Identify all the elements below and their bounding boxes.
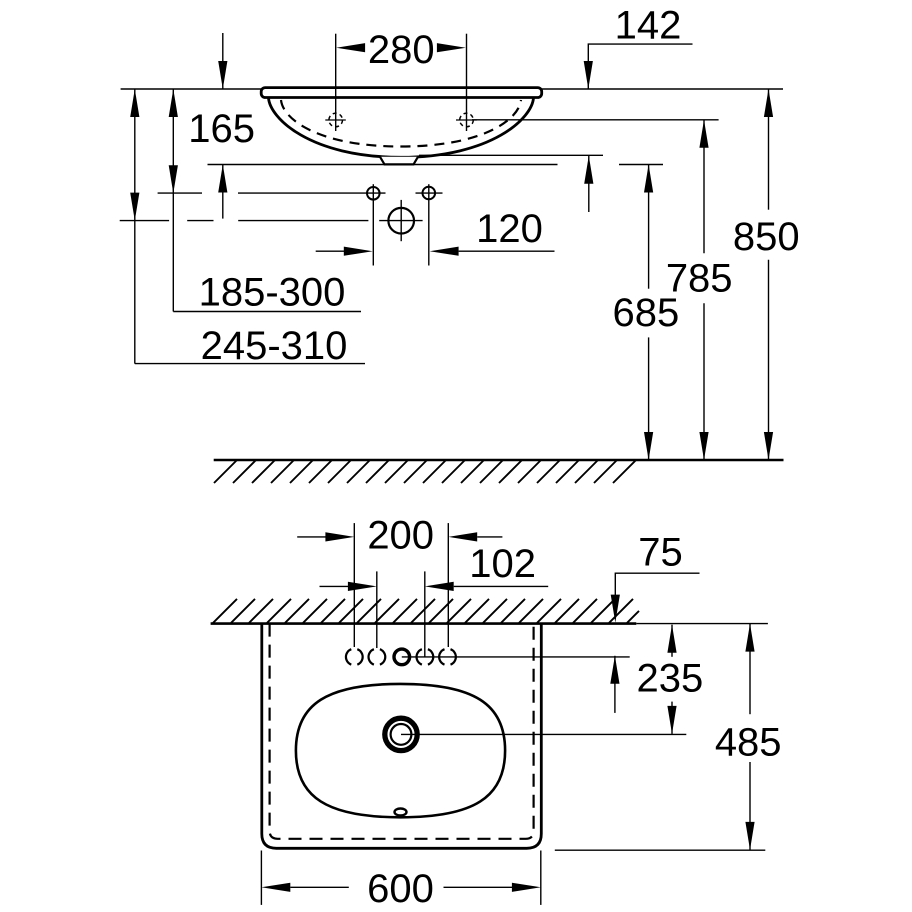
extension line hole 4 bbox=[447, 523, 449, 647]
rim top reference line right bbox=[542, 88, 783, 90]
dim 75 bbox=[610, 530, 699, 713]
svg-text:485: 485 bbox=[715, 720, 782, 764]
extension line hole 1 bbox=[353, 523, 355, 647]
faucet hole center (plan) bbox=[394, 649, 410, 665]
dim 600 bbox=[261, 851, 540, 911]
svg-text:850: 850 bbox=[733, 215, 800, 259]
svg-text:165: 165 bbox=[188, 107, 255, 151]
optional faucet hole 2 bbox=[369, 649, 386, 664]
leader 185-300 bbox=[169, 89, 178, 312]
drain center line bbox=[401, 733, 686, 735]
floor line bbox=[214, 459, 784, 462]
dim 200 bbox=[297, 513, 502, 557]
dim 165 upper arrow bbox=[218, 33, 227, 89]
dim 102 bbox=[320, 542, 549, 591]
svg-text:280: 280 bbox=[368, 28, 435, 72]
faucet height reference line bbox=[472, 119, 719, 121]
washbasin rim (front) bbox=[261, 88, 542, 98]
drain bottom reference line (165) bbox=[208, 164, 558, 166]
bowl outline (plan) bbox=[296, 684, 505, 817]
dim 785 bbox=[666, 120, 733, 460]
dim 142 bbox=[584, 4, 693, 213]
drain hole (front) bbox=[388, 200, 414, 241]
basin bottom reference line bbox=[555, 849, 766, 851]
svg-text:235: 235 bbox=[637, 657, 704, 701]
rim top reference line left bbox=[121, 88, 262, 90]
dim 850 bbox=[733, 89, 800, 460]
basin inner dashed line (plan) bbox=[270, 624, 534, 839]
svg-text:142: 142 bbox=[615, 4, 682, 48]
extension line hole 2 bbox=[376, 571, 378, 648]
svg-text:245-310: 245-310 bbox=[201, 324, 348, 368]
label 245-310 bbox=[135, 324, 365, 368]
optional faucet hole 1 bbox=[346, 649, 363, 664]
drain hole reference line y220.6 bbox=[120, 220, 423, 222]
dim 165 lower arrow bbox=[218, 165, 227, 219]
svg-text:185-300: 185-300 bbox=[199, 271, 346, 315]
extension line right faucet hole bbox=[466, 34, 468, 131]
optional faucet hole 3 bbox=[417, 649, 434, 664]
label 185-300 bbox=[173, 271, 361, 315]
drain (plan) inner ring bbox=[391, 724, 412, 745]
svg-text:75: 75 bbox=[638, 530, 683, 574]
fixing hole right (front) bbox=[423, 184, 436, 265]
drain (plan) outer ring bbox=[385, 718, 417, 750]
bowl inner profile dashed (front) bbox=[281, 100, 521, 147]
svg-text:102: 102 bbox=[469, 542, 536, 586]
dim 235 bbox=[637, 625, 704, 734]
extension line left faucet hole bbox=[335, 34, 337, 131]
fixing hole left (front) bbox=[367, 184, 380, 265]
dim 120 bbox=[316, 207, 555, 256]
overflow hole bbox=[395, 809, 407, 816]
wall line thin extension bbox=[636, 623, 768, 625]
basin outline (plan) bbox=[262, 624, 542, 849]
fixing holes reference line y193 bbox=[158, 192, 443, 194]
wall hatching bbox=[213, 599, 639, 623]
leader 245-310 bbox=[130, 89, 139, 364]
svg-text:120: 120 bbox=[476, 207, 543, 251]
basin underside reference line bbox=[419, 154, 603, 156]
svg-text:200: 200 bbox=[367, 513, 434, 557]
faucet hole left (front) bbox=[325, 113, 346, 127]
dim 685 bbox=[613, 165, 680, 461]
faucet hole right (front) bbox=[456, 113, 477, 127]
bowl outer profile (front) bbox=[269, 98, 534, 158]
drain flange (front) bbox=[380, 157, 418, 165]
floor hatching bbox=[214, 460, 636, 483]
faucet hole line (plan) bbox=[402, 656, 630, 658]
svg-text:785: 785 bbox=[666, 257, 733, 301]
wall line bold bbox=[211, 622, 637, 625]
dim 485 bbox=[715, 624, 782, 850]
extension line hole 3 bbox=[424, 571, 426, 657]
svg-text:600: 600 bbox=[367, 867, 434, 911]
optional faucet hole 4 bbox=[439, 649, 456, 664]
dim 280 bbox=[336, 28, 466, 72]
